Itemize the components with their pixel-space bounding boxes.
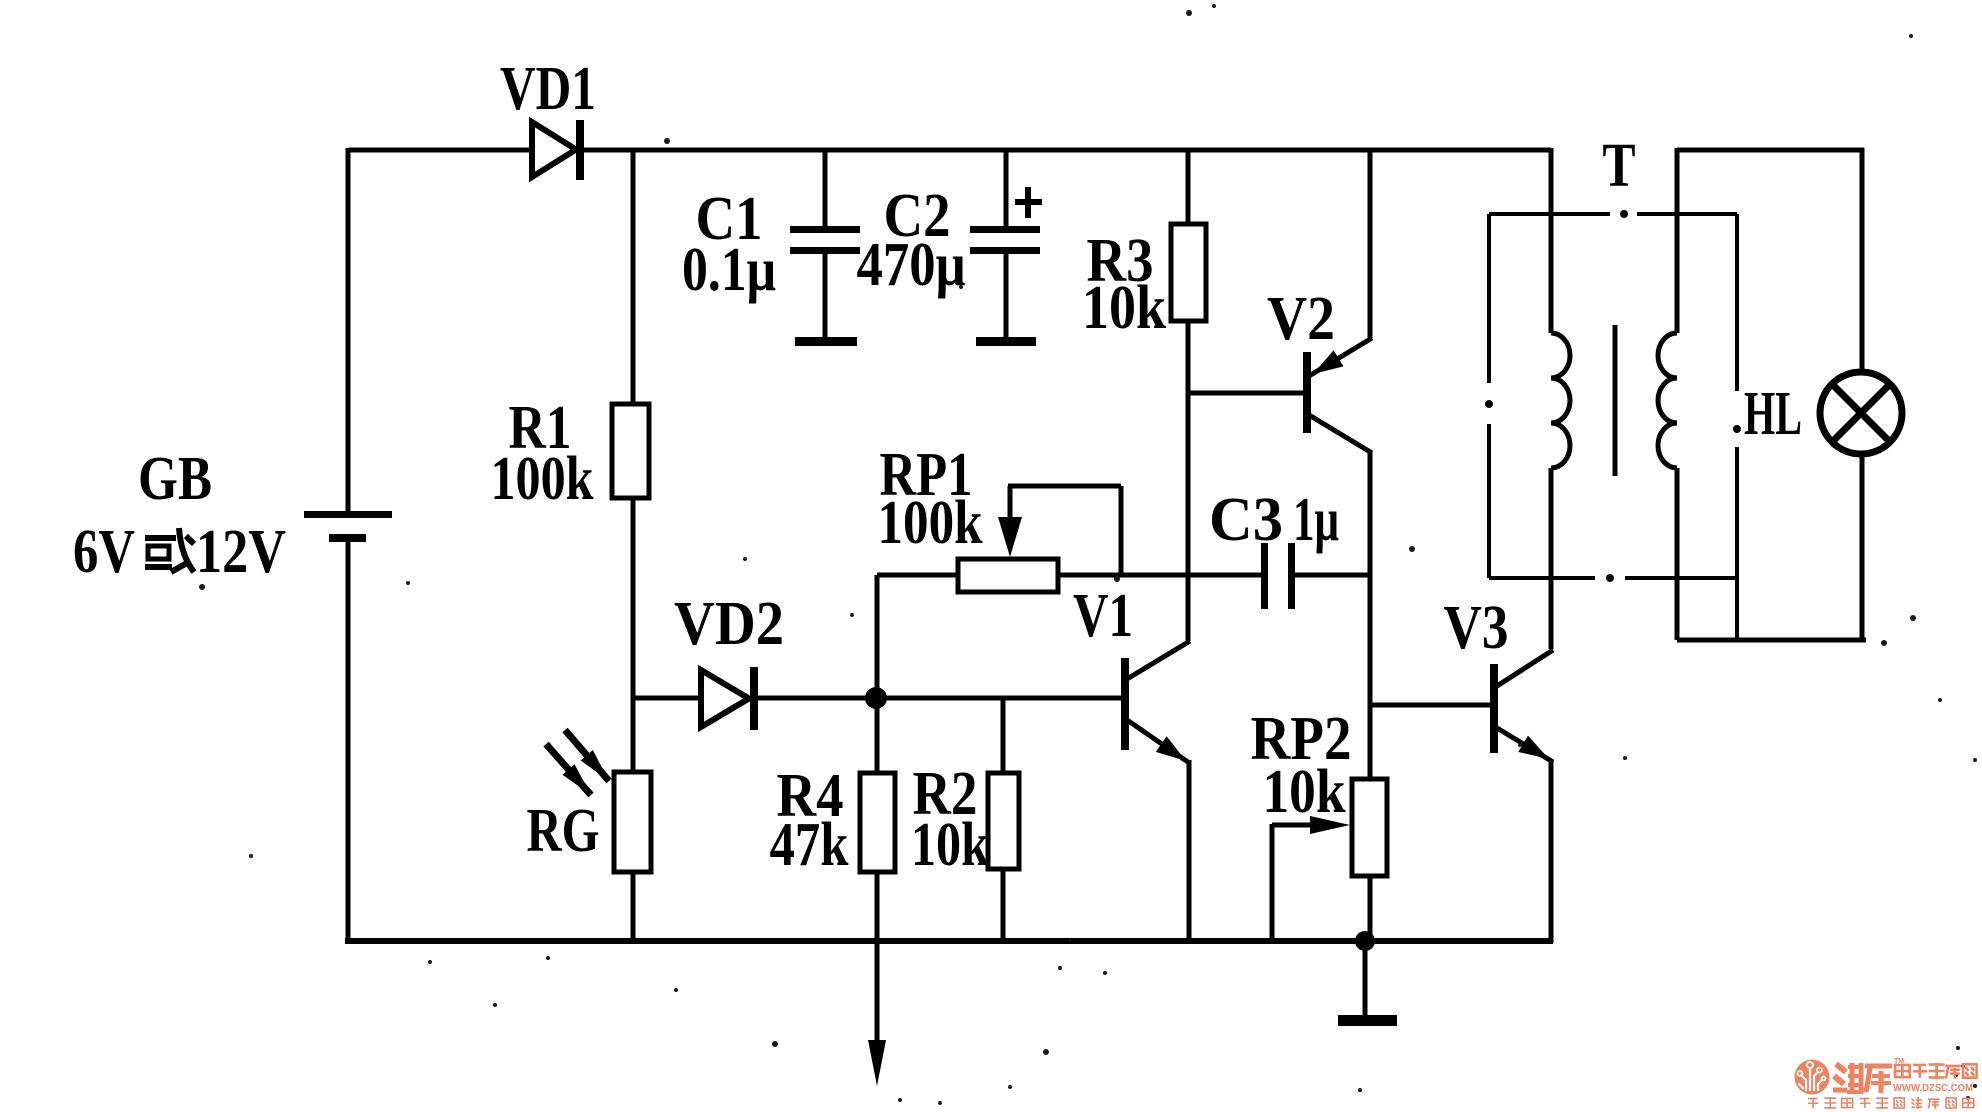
svg-text:GB: GB: [138, 445, 212, 513]
svg-text:100k: 100k: [491, 445, 594, 513]
svg-text:V2: V2: [1267, 285, 1335, 353]
svg-text:47k: 47k: [770, 811, 849, 879]
svg-text:10k: 10k: [1263, 758, 1346, 826]
svg-text:10k: 10k: [911, 811, 989, 879]
svg-text:V1: V1: [1073, 582, 1133, 650]
svg-text:VD1: VD1: [500, 55, 596, 123]
svg-text:V3: V3: [1444, 594, 1509, 662]
svg-text:WWW.DZSC.COM: WWW.DZSC.COM: [1893, 1083, 1973, 1094]
svg-text:1μ: 1μ: [1293, 486, 1339, 554]
svg-text:12V: 12V: [196, 518, 286, 586]
svg-text:0.1μ: 0.1μ: [682, 236, 776, 304]
svg-text:T: T: [1603, 132, 1636, 200]
svg-text:RG: RG: [527, 797, 600, 865]
svg-text:10k: 10k: [1082, 274, 1166, 342]
svg-text:6V: 6V: [73, 518, 135, 586]
svg-text:470μ: 470μ: [857, 231, 966, 299]
svg-text:VD2: VD2: [674, 590, 784, 658]
svg-text:100k: 100k: [878, 489, 983, 557]
svg-text:C3: C3: [1209, 486, 1283, 554]
svg-text:HL: HL: [1744, 380, 1802, 448]
